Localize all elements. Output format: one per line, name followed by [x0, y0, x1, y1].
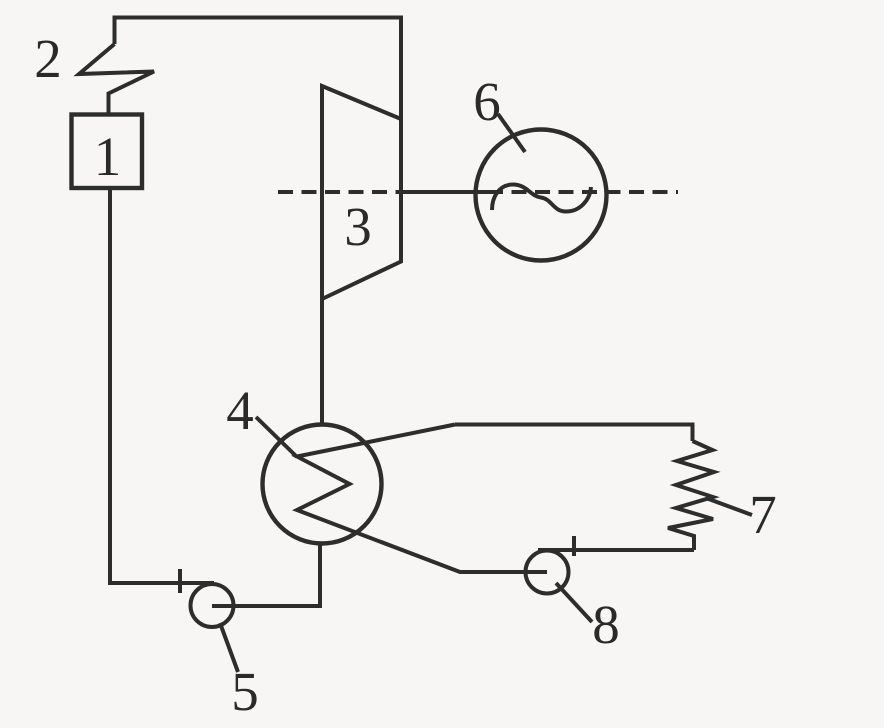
valve tick at pump 8 inlet: [572, 536, 576, 556]
wire: hot water supply pipe to radiator 7: [455, 425, 693, 442]
shaft: dashed line through generator and beyond: [488, 190, 678, 194]
label 5 leader: [220, 623, 238, 672]
heating coil zigzag inside heat exchanger with inlet from radiator line: [297, 425, 547, 573]
svg-text:4: 4: [226, 380, 254, 441]
wire: turbine exhaust down to heat exchanger: [320, 299, 324, 425]
break symbol 2 (pipe rupture zigzag): [79, 44, 154, 115]
boiler U1 (box): [72, 115, 143, 189]
wire: radiator return to pump 8: [538, 548, 694, 552]
pump P5 (circle): [191, 584, 234, 627]
label 4 leader: [256, 417, 297, 457]
turbine T3 (trapezoid): [322, 86, 401, 299]
radiator R7 (zigzag heating load): [668, 441, 714, 550]
wire: main steam pipe from break 2 over the top and down to turbine inlet: [115, 18, 402, 121]
svg-text:6: 6: [473, 71, 501, 132]
label 7 leader: [706, 498, 752, 515]
pump P8 (circle): [526, 551, 569, 594]
label 8 leader: [556, 583, 592, 622]
svg-text:5: 5: [231, 661, 259, 722]
svg-text:7: 7: [749, 484, 777, 545]
shaft: dashed line left of turbine: [278, 190, 400, 194]
heat exchanger HX4 (circle): [263, 425, 382, 544]
svg-text:3: 3: [344, 196, 372, 257]
svg-text:1: 1: [94, 126, 122, 187]
generator G6 (circle): [476, 130, 607, 261]
label 6 leader: [498, 114, 525, 152]
svg-text:8: 8: [592, 594, 620, 655]
svg-text:2: 2: [34, 28, 62, 89]
wire: feedwater line from boiler down and right to pump 5: [110, 188, 214, 583]
sine wave inside generator: [492, 185, 591, 212]
shaft: solid section turbine to generator: [400, 190, 488, 194]
wire: pump 5 outlet to heat exchanger bottom: [212, 544, 320, 606]
valve tick at pump 5 inlet: [178, 569, 182, 593]
